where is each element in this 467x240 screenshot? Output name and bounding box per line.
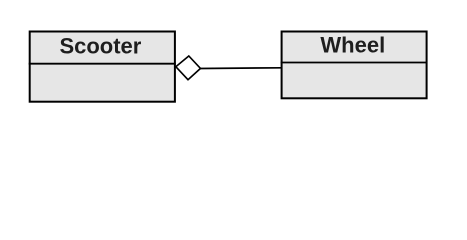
Scooter compartment divider <box>29 63 176 65</box>
Wheel compartment divider <box>281 62 428 64</box>
aggregation diamond (hollow) <box>176 56 201 80</box>
class Scooter <box>29 32 176 102</box>
svg-text:Wheel: Wheel <box>320 33 385 58</box>
Wheel box <box>282 32 427 99</box>
class Wheel <box>281 32 428 99</box>
wire: aggregation association Scooter-Wheel <box>200 67 282 70</box>
svg-text:Scooter: Scooter <box>59 34 141 59</box>
Scooter box <box>30 32 175 102</box>
